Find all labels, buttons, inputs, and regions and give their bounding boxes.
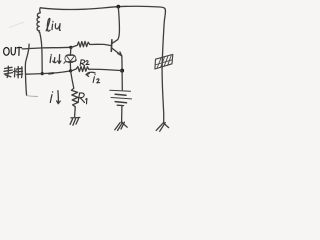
zener diode D1 xyxy=(64,48,77,71)
wire middle rail xyxy=(26,71,71,74)
resistor R1 (vertical zigzag) xyxy=(71,71,79,116)
label L1 "Liu" xyxy=(46,18,60,31)
label isb with down arrow xyxy=(50,55,61,64)
ground under R1 xyxy=(70,118,80,126)
resistor base (upper zigzag) xyxy=(71,41,111,47)
node dot at left lower wire xyxy=(41,72,44,75)
inductor L1 coil xyxy=(37,8,40,33)
wire left vertical xyxy=(25,44,29,95)
node top junction dot xyxy=(116,5,120,9)
resistor R2 (lower zigzag) xyxy=(71,66,122,71)
wire bottom-left stub (faint) xyxy=(27,95,38,98)
ground right xyxy=(156,123,168,132)
crystal Y1 hatched box xyxy=(155,54,173,69)
label i2 with hook arrow xyxy=(86,72,95,76)
label i with down arrow (R1 current) xyxy=(50,92,52,103)
label R2 xyxy=(80,60,89,66)
battery B1 lead top xyxy=(121,71,123,90)
wire right vertical xyxy=(162,8,165,123)
wire top rail xyxy=(40,6,164,9)
wire inductor lead down xyxy=(40,33,43,74)
label coupling (scribbled characters) xyxy=(4,66,23,78)
transistor Q1 xyxy=(111,7,122,70)
node dot zener bottom xyxy=(69,69,72,72)
node dot emitter junction xyxy=(120,69,124,73)
label OUT xyxy=(4,47,22,55)
label R1 xyxy=(78,93,87,104)
wire blob on middle rail xyxy=(49,72,53,75)
battery lead bottom xyxy=(121,106,123,123)
node dot zener top xyxy=(69,46,72,49)
ground under battery xyxy=(115,122,127,130)
battery B1 plates xyxy=(110,90,132,105)
wire OUT upper xyxy=(22,47,71,49)
faint pencil smudge top-left xyxy=(9,22,24,27)
